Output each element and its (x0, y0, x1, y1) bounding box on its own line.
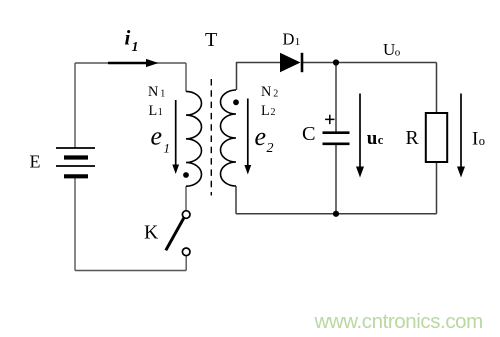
svg-text:R: R (406, 127, 420, 149)
svg-text:U: U (383, 40, 395, 59)
transformer core (210, 79, 212, 196)
wire secondary bottom stub (235, 186, 237, 214)
current arrow i1 (108, 59, 159, 67)
wire top-left horizontal (75, 62, 186, 64)
svg-text:L: L (261, 103, 270, 119)
node junction bottom (333, 211, 339, 217)
svg-text:2: 2 (267, 141, 274, 156)
current arrow Io (457, 94, 465, 178)
emf arrow e1 (172, 100, 179, 174)
node junction top (333, 59, 339, 65)
svg-text:N: N (148, 84, 158, 100)
wire battery bottom vertical (74, 178, 76, 271)
svg-text:i: i (125, 25, 131, 49)
battery E (56, 148, 95, 176)
svg-text:u: u (367, 128, 378, 149)
wire secondary top to diode anode (237, 63, 281, 91)
transformer secondary winding L2 (221, 90, 237, 186)
wire capacitor bottom (335, 145, 337, 214)
svg-text:1: 1 (158, 107, 163, 118)
wire resistor bottom (436, 162, 438, 214)
svg-text:1: 1 (132, 40, 139, 55)
switch K (166, 211, 190, 256)
polarity dot secondary (233, 99, 239, 105)
svg-text:2: 2 (271, 107, 276, 118)
svg-text:o: o (395, 47, 401, 59)
resistor R (426, 113, 447, 162)
diode D1 (280, 53, 302, 72)
transformer primary winding L1 (186, 91, 202, 186)
svg-text:www.cntronics.com: www.cntronics.com (314, 310, 483, 333)
wire primary top stub (185, 63, 187, 92)
wire switch-bottom stub (185, 256, 187, 271)
svg-text:I: I (472, 129, 478, 150)
wire left vertical (battery top) (74, 63, 76, 148)
svg-text:N: N (261, 84, 271, 100)
voltage arrow uc (356, 94, 364, 178)
wire right vertical to resistor (436, 63, 438, 114)
svg-text:c: c (378, 133, 384, 147)
wire bottom-left horizontal (75, 270, 186, 272)
svg-text:E: E (30, 152, 41, 172)
svg-text:D: D (283, 29, 295, 48)
polarity dot primary (183, 172, 189, 178)
wire bottom-right horizontal (236, 213, 437, 215)
svg-text:e: e (255, 122, 267, 151)
svg-text:e: e (151, 122, 163, 151)
capacitor C (323, 115, 350, 144)
svg-text:K: K (144, 222, 159, 244)
svg-text:L: L (149, 103, 158, 119)
svg-text:1: 1 (164, 140, 171, 155)
svg-text:o: o (479, 134, 485, 148)
svg-text:C: C (302, 123, 316, 145)
svg-text:1: 1 (295, 36, 301, 48)
svg-text:T: T (205, 29, 217, 51)
wire diode cathode to top-right corner (303, 62, 437, 64)
svg-text:1: 1 (160, 88, 165, 99)
wire capacitor top (335, 63, 337, 133)
svg-text:2: 2 (273, 88, 278, 99)
emf arrow e2 (244, 99, 251, 175)
wire primary coil to switch (185, 186, 187, 211)
